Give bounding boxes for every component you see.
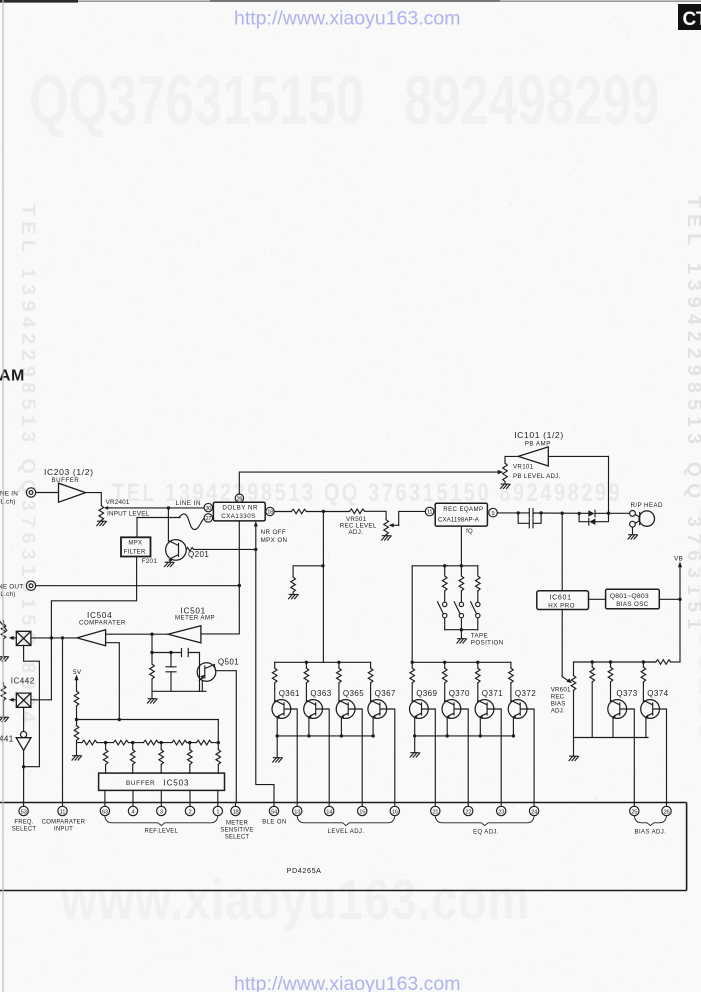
svg-text:Q373: Q373: [616, 689, 637, 698]
pin 29 DOLBY: [235, 494, 243, 502]
svg-text:27: 27: [205, 516, 211, 522]
capacitor series on main line: [529, 509, 533, 518]
wire Q371 base to pin: [494, 709, 501, 803]
brace BIAS ADJ.: [634, 817, 666, 826]
label FREQ. SELECT: [12, 820, 37, 833]
ground VR lower: [0, 717, 9, 721]
transistor Q370: [442, 700, 461, 719]
junction eq rail feed: [411, 661, 414, 664]
wire tap to resistor: [217, 743, 219, 750]
transistor Q201: [166, 540, 187, 562]
ground VR2401: [97, 521, 107, 525]
wire squiggle to DOLBY pin 27: [179, 514, 204, 530]
pin 22 EQ ADJ: [464, 803, 473, 816]
ground head: [628, 535, 638, 539]
pin 3 REF LEVEL: [157, 803, 166, 816]
junction cap loop right: [539, 511, 542, 514]
svg-text:25: 25: [631, 809, 637, 815]
pin 14 LEVEL ADJ: [325, 803, 334, 816]
wire switch resistor top: [444, 566, 446, 576]
ground Q201: [165, 562, 175, 566]
junction bleed resistor: [321, 564, 324, 567]
pin 53 FREQ SELECT: [19, 803, 28, 816]
junction switch rail: [460, 564, 463, 567]
resistor ladder tap: [130, 750, 135, 765]
pin 30 DOLBY: [204, 503, 212, 511]
junction ladder tap: [160, 741, 163, 744]
junction emitter rail: [413, 734, 416, 737]
wire PB amp input from head node: [548, 455, 608, 457]
wire resistor to VR501: [306, 511, 349, 513]
label VR101 PB LEVEL ADJ.: [513, 464, 561, 480]
junction comparator input pin: [61, 636, 64, 639]
svg-text:16: 16: [392, 809, 398, 815]
wire Q369 emitter to rail: [414, 718, 416, 736]
svg-text:21: 21: [432, 809, 438, 815]
svg-text:Q801~Q803: Q801~Q803: [610, 593, 649, 600]
svg-text:LEVEL ADJ.: LEVEL ADJ.: [328, 829, 365, 835]
wire fQ to tape switch rail: [460, 526, 462, 566]
wire resistor to contact: [460, 591, 462, 602]
rail tape switch top: [412, 565, 478, 567]
inverter Q441: [16, 731, 31, 750]
svg-text:VB: VB: [674, 555, 683, 562]
svg-text:IC503: IC503: [164, 779, 190, 788]
svg-text:11: 11: [427, 510, 432, 516]
wire Q372 base to pin: [527, 709, 534, 803]
junction emitter rail: [371, 734, 374, 737]
wire to Q363: [305, 683, 307, 702]
svg-text:ADJ.: ADJ.: [349, 529, 364, 536]
label VR601 REC BIAS ADJ.: [551, 686, 571, 714]
wire Q441 out to pin 53: [23, 750, 25, 802]
wire collector resistor top: [510, 662, 512, 668]
wire contact to bottom rail: [477, 618, 479, 630]
wire upper modulator out jog down: [24, 646, 40, 767]
junction bias rail: [591, 660, 594, 663]
wire lower modulator to inverter Q441: [23, 707, 25, 731]
wire Q370 base to pin: [461, 709, 468, 803]
wire buffer output to pin: [104, 790, 106, 802]
wire Q372 emitter to rail: [512, 718, 514, 736]
junction PB amp input: [607, 512, 610, 515]
wire collector resistor top: [444, 662, 446, 668]
junction Q441 output: [22, 765, 25, 768]
svg-text:FILTER: FILTER: [124, 549, 146, 555]
svg-text:QQ376315150: QQ376315150: [29, 61, 364, 139]
junction emitter rail: [307, 734, 310, 737]
wire tap to resistor: [132, 743, 134, 750]
resistor Q371 collector: [476, 668, 481, 683]
wire resistor to bias rail: [643, 661, 655, 663]
label IC501 METER AMP: [175, 607, 215, 622]
svg-text:15: 15: [359, 809, 365, 815]
wire bleed to ground: [292, 592, 294, 594]
supply 5V arrow: [73, 669, 82, 691]
svg-text:Q501: Q501: [218, 658, 239, 667]
IC DOLBY NR CXA1330S: [213, 502, 265, 521]
resistor tape position: [459, 576, 464, 591]
transistor Q373: [608, 700, 627, 719]
svg-text:Q361: Q361: [279, 689, 300, 698]
wire HX PRO to BIAS OSC: [589, 598, 606, 600]
wire contact to bottom rail: [460, 618, 462, 630]
wire bias rail to ground: [573, 738, 575, 757]
resistor bias feed: [656, 660, 671, 665]
switch tape position: [454, 602, 463, 618]
resistor Q365 collector: [337, 668, 342, 683]
wire line out branch down to IC442: [51, 586, 136, 700]
pin 27 DOLBY: [204, 514, 212, 522]
wire DOLBY pin29 up and right to VR101: [239, 472, 498, 494]
junction ladder tap: [217, 741, 220, 744]
svg-text:BIAS OSC: BIAS OSC: [616, 601, 649, 608]
resistor VR601 body: [571, 675, 576, 690]
junction to IC601: [561, 512, 564, 515]
svg-text:Q374: Q374: [647, 689, 668, 698]
wire to Q361: [274, 683, 276, 702]
brace LEVEL ADJ.: [297, 817, 395, 826]
svg-text:REC EQAMP: REC EQAMP: [443, 506, 483, 513]
svg-text:CXA1330S: CXA1330S: [221, 513, 256, 520]
resistor Q361 collector: [272, 668, 277, 683]
wire meter amp out to comparator: [106, 633, 168, 635]
svg-text:TEL 13942298513 QQ37631515Q 89: TEL 13942298513 QQ37631515Q 8924: [17, 204, 39, 728]
junction switch rail: [443, 564, 446, 567]
svg-text:NR OFF: NR OFF: [261, 529, 286, 536]
resistor Q374 collector: [641, 667, 646, 682]
svg-text:REC: REC: [551, 693, 565, 700]
supply VB arrow: [674, 555, 683, 662]
top scan edge line: [0, 0, 701, 2]
svg-text:13: 13: [294, 809, 300, 815]
wire VR601 bottom to rail: [573, 690, 575, 737]
wire divider middle: [76, 720, 78, 726]
op-amp IC501 METER AMP: [168, 626, 201, 643]
junction level rail: [305, 661, 308, 664]
pin 54 BLE ON: [269, 803, 278, 816]
svg-text:VR101: VR101: [513, 464, 534, 471]
svg-text:(L.ch): (L.ch): [0, 591, 16, 598]
ground level group: [273, 758, 283, 762]
svg-text:22: 22: [465, 809, 471, 815]
wire Q371 emitter to rail: [479, 718, 481, 736]
pin 4 REF LEVEL: [128, 803, 137, 816]
junction meter feedback: [150, 633, 153, 636]
pin 18 METER SENSITIVE SELECT: [231, 803, 240, 816]
svg-text:63: 63: [102, 809, 108, 815]
wire tap to resistor: [189, 743, 191, 750]
wire tap to resistor: [160, 743, 162, 750]
svg-text:Q369: Q369: [416, 689, 437, 698]
transistor Q363: [304, 700, 323, 719]
capacitor feedback top: [182, 648, 189, 656]
wire BIAS OSC to VB rail: [659, 598, 680, 600]
resistor VR501 upper: [350, 509, 365, 514]
svg-text:11: 11: [60, 809, 65, 815]
svg-text:26: 26: [664, 809, 670, 815]
wire pin9 to diodes with series cap gap: [497, 512, 588, 514]
wire to Q370: [444, 683, 446, 702]
IC REC EQAMP CXA1198AP-A: [435, 503, 487, 526]
rail reference: [77, 719, 219, 721]
resistor VR501 body: [384, 520, 389, 535]
svg-text:IC601: IC601: [550, 595, 572, 602]
wire diodes to head: [595, 512, 629, 514]
switch tape position: [471, 602, 480, 618]
brace REF.LEVEL: [105, 817, 218, 826]
svg-text:5V: 5V: [73, 669, 82, 676]
wire Q361 base to pin: [291, 709, 297, 803]
svg-text:Q372: Q372: [515, 689, 536, 698]
wire feedback left bottom: [151, 679, 153, 699]
pin 18 DOLBY: [266, 507, 274, 515]
junction switch ground: [460, 628, 463, 631]
transistor Q372: [508, 700, 527, 719]
transistor Q369: [410, 700, 429, 719]
wire fb right vertical: [199, 653, 201, 692]
wire VB to resistor: [670, 661, 680, 663]
resistor bleed: [291, 577, 296, 592]
svg-text:MPX: MPX: [128, 541, 142, 547]
pin 26 BIAS ADJ: [662, 803, 671, 816]
resistor 5V upper: [74, 691, 79, 706]
svg-text:2: 2: [189, 809, 192, 815]
capacitor parallel loop: [518, 513, 541, 528]
wire Q361 emitter to rail: [276, 718, 278, 736]
wire down to pin 11: [62, 638, 64, 803]
wire collector resistor top: [274, 662, 276, 668]
wire PB amp out to VR101: [505, 456, 518, 463]
connector board edge: [0, 803, 687, 891]
label NR OFF / MPX ON: [261, 529, 288, 544]
wire Q373 collector top: [610, 662, 612, 667]
wire resistor to buffer: [132, 765, 134, 774]
svg-text:LINE IN: LINE IN: [176, 500, 202, 507]
svg-text:IC203 (1/2): IC203 (1/2): [44, 467, 94, 477]
junction bias rail: [609, 660, 612, 663]
wire VR501 corner: [365, 511, 387, 519]
wire comparator out to modulator: [31, 637, 77, 639]
junction emitter rail: [276, 734, 279, 737]
wire head to ground: [632, 527, 634, 534]
wire to ref rail: [76, 706, 78, 720]
pin 15 LEVEL ADJ: [358, 803, 367, 816]
svg-text:18: 18: [267, 510, 273, 516]
svg-text:53: 53: [21, 809, 27, 815]
op-amp IC101 PB AMP: [518, 447, 548, 466]
svg-text:1: 1: [216, 809, 219, 815]
pin 25 BIAS ADJ: [630, 803, 639, 816]
wire Q367 emitter to rail: [372, 718, 374, 736]
resistor Q372 collector: [509, 668, 514, 683]
switch tape position: [438, 602, 447, 618]
wire to Q371: [477, 683, 479, 702]
svg-text:INPUT: INPUT: [54, 827, 73, 833]
IC Q801~Q803 BIAS OSC: [606, 589, 660, 609]
label LINE OUT (L.ch): [0, 584, 23, 599]
junction emitter rail: [446, 734, 449, 737]
transistor Q371: [475, 700, 494, 719]
label LINE IN (L.ch): [0, 490, 18, 505]
box MPX FILTER F201: [121, 537, 151, 556]
op-amp IC504 comparator: [77, 630, 106, 646]
svg-text:VR601: VR601: [551, 686, 571, 693]
wire head node up to PB amp: [608, 456, 610, 513]
wire collector resistor top: [411, 662, 413, 668]
rec/play head symbol: [635, 511, 654, 526]
wire VR601 top: [573, 662, 575, 675]
wire switch resistor top: [460, 566, 462, 576]
transistor Q365: [336, 700, 355, 719]
wire buffer output to pin: [132, 790, 134, 802]
label COMPARATER INPUT: [42, 820, 86, 833]
pin 11 REC EQAMP: [425, 507, 434, 516]
svg-text:BUFFER: BUFFER: [126, 780, 155, 787]
svg-text:3: 3: [160, 809, 163, 815]
wire switch rail to ground: [460, 630, 462, 639]
wire collector resistor top: [370, 662, 372, 668]
resistor ladder tap: [159, 750, 164, 765]
wire comparator fb to divider rail: [106, 643, 120, 720]
svg-text:DOLBY NR: DOLBY NR: [222, 504, 258, 511]
wire DOLBY bottom to line-out junction: [238, 521, 240, 586]
svg-text:(L.ch): (L.ch): [0, 499, 16, 506]
wire Q365 emitter to rail: [340, 718, 342, 736]
wire to Q373: [610, 682, 612, 702]
wire Q201 base zigzag to NR line: [186, 548, 256, 552]
resistor Q363 collector: [304, 668, 309, 683]
terminal LINE IN (L.ch): [26, 488, 35, 497]
resistor meter feedback: [150, 664, 155, 679]
junction ref rail left: [75, 718, 78, 721]
junction eq rail: [476, 661, 479, 664]
ladder REF LEVEL resistors: [77, 740, 219, 745]
resistor Q367 collector: [368, 668, 373, 683]
junction fb cap: [169, 651, 172, 654]
svg-text:HX PRO: HX PRO: [548, 602, 575, 609]
transistor Q361: [272, 700, 291, 719]
wire resistor to buffer: [189, 765, 191, 774]
IC503 BUFFER box: [99, 773, 225, 790]
svg-text:Q371: Q371: [482, 689, 503, 698]
wire resistor to buffer: [160, 765, 162, 774]
svg-text:50 892498299: 50 892498299: [691, 480, 701, 745]
junction monitor branch: [50, 636, 53, 639]
transistor Q367: [368, 700, 387, 719]
wire to Q374: [642, 682, 644, 702]
pin 9 REC EQAMP: [489, 508, 498, 517]
rail level emitters: [277, 735, 373, 737]
wire NR line down to pin 54: [256, 549, 274, 802]
wire to Q367: [370, 683, 372, 702]
svg-text:Q363: Q363: [310, 689, 331, 698]
wire collector resistor top: [305, 662, 307, 668]
terminal head hot: [630, 511, 636, 517]
label VR501 REC LEVEL ADJ.: [340, 516, 377, 536]
svg-text:Q370: Q370: [449, 689, 470, 698]
svg-text:23: 23: [498, 809, 504, 815]
wire down to IC601 HX PRO: [561, 513, 563, 591]
wire eq rail to ground: [414, 736, 416, 753]
pin 24 EQ ADJ: [529, 803, 538, 816]
label IC203 (1/2) BUFFER: [44, 467, 94, 484]
ground VR101: [501, 484, 511, 488]
svg-text:INPUT LEVEL: INPUT LEVEL: [107, 510, 150, 517]
svg-text:PB AMP: PB AMP: [525, 440, 551, 447]
wire buffer output to pin: [217, 790, 219, 802]
modulator IC442 upper: [16, 631, 31, 645]
wire Q374 emitter to rail: [645, 718, 647, 738]
wire to Q365: [338, 683, 340, 702]
junction ladder tap: [104, 741, 107, 744]
svg-text:18: 18: [233, 809, 239, 815]
svg-text:30: 30: [205, 506, 211, 512]
wire contact to bottom rail: [444, 618, 446, 630]
svg-text:VR2401: VR2401: [106, 499, 130, 506]
pin 11 COMPARATER INPUT: [58, 803, 67, 816]
ground tape switch: [457, 639, 467, 643]
svg-text:AM: AM: [0, 368, 25, 385]
junction ladder tap: [188, 741, 191, 744]
junction fb top rail: [150, 651, 153, 654]
resistor bias divider: [590, 667, 595, 682]
label TAPE POSITION: [471, 632, 504, 646]
svg-text:http://www.xiaoyu163.com: http://www.xiaoyu163.com: [234, 973, 461, 992]
ground bias group: [569, 756, 579, 760]
svg-text:9: 9: [491, 511, 494, 517]
svg-text:EQ ADJ.: EQ ADJ.: [473, 829, 499, 835]
ground 5V divider: [72, 756, 82, 760]
wire Q370 emitter to rail: [446, 718, 448, 736]
svg-text:Q365: Q365: [343, 689, 364, 698]
capacitor feedback middle: [166, 667, 176, 672]
svg-text:METER AMP: METER AMP: [175, 615, 215, 622]
svg-text:PD4265A: PD4265A: [287, 866, 322, 875]
svg-text:SENSITIVE: SENSITIVE: [220, 827, 253, 833]
brace EQ ADJ.: [435, 817, 534, 826]
junction NR line: [254, 548, 257, 551]
wire Q373 base to pin 25: [627, 709, 635, 803]
wire MPX filter bottom to line-out wire: [136, 557, 138, 586]
resistor tape position: [476, 576, 481, 591]
resistor 5V lower: [74, 726, 79, 741]
resistor Q373 collector: [608, 667, 613, 682]
rail bias emitters: [574, 737, 649, 739]
wire lower modulator to monitor branch: [31, 699, 52, 701]
ground meter network: [148, 699, 158, 703]
svg-text:C: C: [683, 9, 697, 30]
junction emitter rail: [340, 734, 343, 737]
wire feedback left top: [151, 634, 153, 664]
svg-text:SELECT: SELECT: [225, 834, 250, 840]
svg-text:http://www.xiaoyu163.com: http://www.xiaoyu163.com: [234, 8, 461, 30]
wire to Q372: [510, 683, 512, 702]
wire tap to resistor: [105, 743, 107, 750]
wire fb top rail with cap gap: [152, 652, 200, 654]
svg-text:CXA1198AP-A: CXA1198AP-A: [438, 516, 480, 523]
wire MPX filter top to squiggle: [137, 518, 180, 538]
wiper arrow VR501: [389, 511, 426, 527]
left scan edge line: [2, 0, 4, 992]
svg-text:F201: F201: [142, 558, 158, 565]
wire monitor node to meter amp input: [201, 586, 239, 634]
svg-text:COMPARATER: COMPARATER: [79, 620, 126, 627]
svg-text:ADJ.: ADJ.: [551, 707, 565, 714]
label IC504 COMPARATER: [79, 611, 126, 627]
wiper arrow VR601: [562, 677, 572, 684]
wire Q369 base to pin: [428, 709, 435, 803]
